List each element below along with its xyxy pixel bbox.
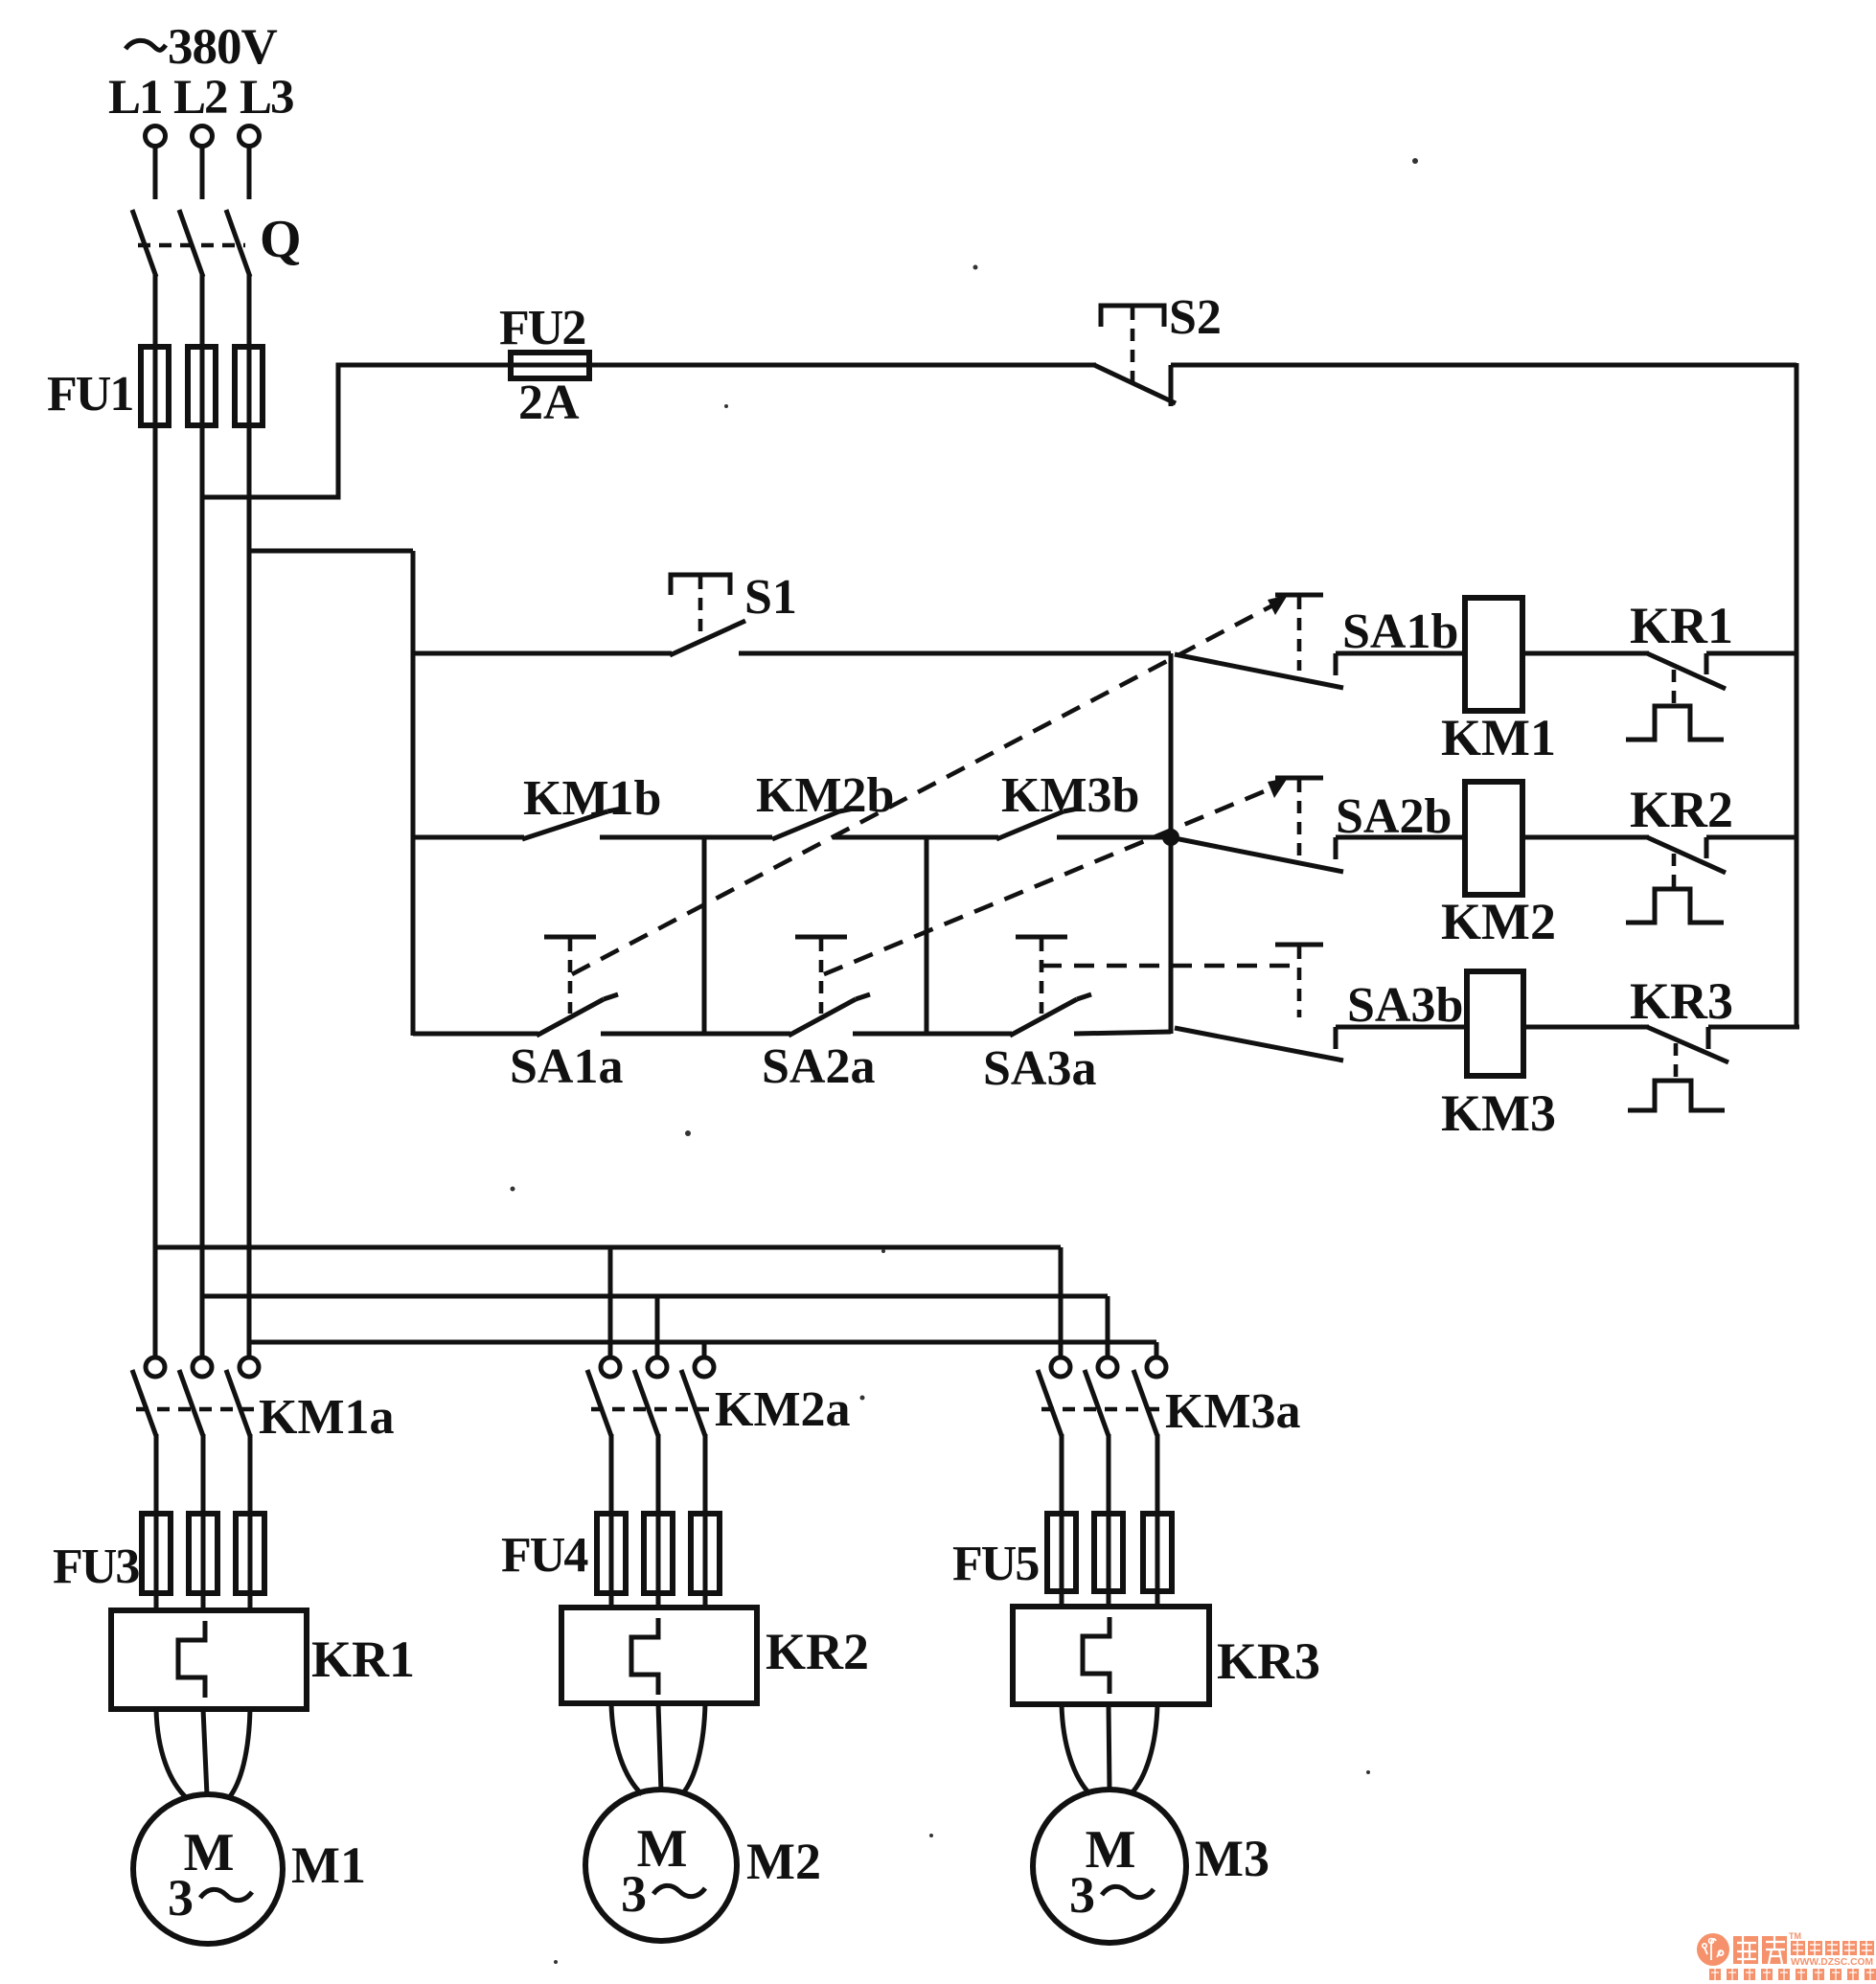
- wire SA3a to center junction: [1074, 1032, 1171, 1034]
- svg-text:3: 3: [168, 1869, 194, 1927]
- watermark logo dzsc: [1697, 1933, 1729, 1966]
- wire S1 to center junction: [739, 651, 1171, 656]
- linkage SA3a to SA3b (dashed horizontal): [1041, 964, 1295, 969]
- svg-text:S2: S2: [1169, 290, 1222, 345]
- thermal relay contact KR3 (normally closed): [1628, 972, 1799, 1110]
- svg-text:KR2: KR2: [766, 1623, 869, 1680]
- contactor main contacts KM2a: [587, 1357, 851, 1516]
- svg-text:3: 3: [621, 1865, 647, 1923]
- svg-text:KR1: KR1: [1630, 597, 1733, 654]
- contactor main contacts KM1a: [132, 1357, 395, 1516]
- motor leads M1: [156, 1709, 250, 1799]
- bus drops to KM2a: [610, 1247, 704, 1357]
- svg-text:KM1: KM1: [1441, 709, 1556, 766]
- contactor auxiliary contact KM3b (NO): [996, 768, 1139, 839]
- svg-text:M3: M3: [1195, 1830, 1270, 1887]
- svg-text:2A: 2A: [518, 376, 580, 430]
- thermal relay heater KR2: [561, 1608, 869, 1703]
- supply voltage label ~380V: [126, 19, 278, 75]
- svg-text:FU3: FU3: [53, 1539, 139, 1594]
- watermark text 维库 (glyph blocks): [1733, 1931, 1801, 1964]
- thermal relay contact KR1 (normally closed): [1626, 597, 1796, 740]
- svg-text:SA1b: SA1b: [1342, 604, 1458, 659]
- wire L3 vertical (Q to KM1a): [247, 275, 252, 1357]
- linkage SA2a to SA2b (dashed diagonal with arrow): [824, 778, 1288, 974]
- svg-text:380V: 380V: [168, 19, 278, 75]
- svg-text:FU4: FU4: [501, 1528, 588, 1583]
- wire FU2 to S2: [589, 363, 1096, 368]
- left control rail: [411, 551, 416, 1036]
- pushbutton S2 (normally closed): [1094, 290, 1222, 406]
- motor M2: [585, 1790, 821, 1941]
- wire KM2 coil to KR2: [1522, 835, 1649, 840]
- bus L1 drop to KM3a: [1059, 1247, 1064, 1357]
- contactor main contacts KM3a: [1038, 1357, 1301, 1516]
- wire row B rail to S1: [413, 651, 672, 656]
- watermark slogan 专业电子元器件交易网站 (glyph blocks): [1709, 1969, 1876, 1980]
- contactor auxiliary contact KM2b (NO): [756, 768, 894, 839]
- svg-text:FU2: FU2: [499, 301, 584, 355]
- junction dot at row C: [1162, 829, 1179, 846]
- wire L2 vertical (Q to KM1a): [200, 275, 205, 1357]
- svg-text:WWW.DZSC.COM: WWW.DZSC.COM: [1791, 1956, 1873, 1968]
- svg-text:SA3a: SA3a: [983, 1041, 1096, 1096]
- fuse FU4 (three cartridges): [501, 1514, 720, 1608]
- contactor coil KM2: [1441, 782, 1556, 950]
- linkage SA1a to SA1b (dashed diagonal with arrow): [572, 595, 1288, 974]
- svg-text:FU5: FU5: [952, 1537, 1039, 1591]
- scan noise specks: [511, 158, 1419, 1964]
- svg-text:SA3b: SA3b: [1347, 978, 1463, 1033]
- svg-text:KR1: KR1: [311, 1631, 415, 1688]
- wire L1 vertical (Q to KM1a): [153, 275, 158, 1357]
- power bus from L1: [155, 1245, 1061, 1250]
- watermark text 电子市场网 (glyph blocks): [1791, 1941, 1874, 1955]
- disconnect switch Q: [132, 210, 302, 277]
- wire control tap from L2 up to FU2 row: [202, 365, 515, 497]
- svg-text:KM3: KM3: [1441, 1084, 1556, 1142]
- svg-text:M1: M1: [291, 1836, 366, 1894]
- selector contact SA1a (NO): [510, 937, 623, 1094]
- phase terminal labels L1 L2 L3: [108, 71, 293, 125]
- terminal L1: [146, 126, 166, 200]
- selector contact SA2a (NO): [762, 937, 875, 1094]
- power bus from L2: [202, 1294, 1108, 1299]
- wire S2 to right bus: [1171, 363, 1796, 368]
- contactor coil KM3: [1441, 971, 1556, 1142]
- svg-text:SA1a: SA1a: [510, 1039, 623, 1094]
- thermal relay contact KR2 (normally closed): [1626, 781, 1796, 923]
- wire KM2b to divider 2: [833, 835, 998, 840]
- wire KM3b to center junction: [1057, 835, 1171, 840]
- svg-text:KR3: KR3: [1630, 972, 1733, 1030]
- selector contact SA3a (NO): [983, 937, 1096, 1096]
- svg-text:KR2: KR2: [1630, 781, 1733, 838]
- wire row C rail to KM1b: [413, 835, 524, 840]
- svg-text:KM1b: KM1b: [523, 771, 661, 826]
- svg-text:KM2a: KM2a: [715, 1382, 851, 1437]
- fuse FU5 (three cartridges): [952, 1514, 1172, 1607]
- svg-text:KM2: KM2: [1441, 893, 1556, 950]
- svg-text:L3: L3: [240, 71, 293, 125]
- svg-text:KR3: KR3: [1217, 1632, 1320, 1690]
- selector contact SA2b (normally closed): [1175, 778, 1465, 872]
- wire row D rail to SA1a: [413, 1032, 538, 1037]
- svg-text:L2: L2: [173, 71, 227, 125]
- motor M3: [1033, 1790, 1270, 1943]
- wire control tap from L3 to left rail: [249, 549, 413, 554]
- selector contact SA3b (normally closed): [1175, 945, 1467, 1060]
- fuse FU2 with rating 2A: [499, 301, 593, 430]
- terminal L2: [193, 126, 213, 200]
- wire SA2a to SA3a: [853, 1032, 1012, 1037]
- svg-text:3: 3: [1069, 1866, 1095, 1924]
- svg-text:TM: TM: [1789, 1931, 1801, 1941]
- power bus from L3: [249, 1340, 1156, 1345]
- pushbutton S1 (normally open): [670, 570, 797, 655]
- svg-text:M2: M2: [746, 1833, 821, 1890]
- motor M1: [133, 1794, 366, 1944]
- svg-text:KM2b: KM2b: [756, 768, 894, 823]
- center junction vertical: [1169, 653, 1174, 1034]
- svg-text:S1: S1: [744, 570, 797, 625]
- motor leads M2: [611, 1703, 705, 1794]
- svg-text:FU1: FU1: [47, 367, 132, 422]
- right bus vertical: [1795, 363, 1799, 1027]
- contactor coil KM1: [1441, 598, 1556, 766]
- wire SA1a to SA2a: [601, 1032, 790, 1037]
- svg-text:KM3a: KM3a: [1165, 1384, 1301, 1439]
- wire KM3 coil to KR3: [1523, 1025, 1649, 1030]
- divider vertical 2: [925, 837, 929, 1036]
- motor leads M3: [1062, 1704, 1157, 1794]
- svg-text:SA2a: SA2a: [762, 1039, 875, 1094]
- selector contact SA1b (normally closed): [1175, 595, 1465, 688]
- terminal L3: [240, 126, 260, 200]
- fuse FU1 (three cartridges): [47, 347, 263, 425]
- svg-text:L1: L1: [108, 71, 162, 125]
- fuse FU3 (three cartridges): [53, 1514, 264, 1610]
- contactor auxiliary contact KM1b (NO): [522, 771, 661, 839]
- bus L3 drop to KM3a: [1155, 1342, 1159, 1357]
- divider vertical 1: [702, 837, 707, 1036]
- thermal relay heater KR3: [1013, 1607, 1320, 1704]
- svg-text:KM1a: KM1a: [259, 1390, 395, 1445]
- wire KM1 coil to KR1: [1522, 651, 1649, 656]
- svg-text:SA2b: SA2b: [1336, 789, 1452, 844]
- wire KM1b to divider 1: [600, 835, 772, 840]
- svg-text:Q: Q: [260, 210, 302, 269]
- thermal relay heater KR1: [111, 1610, 415, 1709]
- bus L2 drop to KM3a: [1106, 1296, 1110, 1357]
- svg-text:KM3b: KM3b: [1001, 768, 1139, 823]
